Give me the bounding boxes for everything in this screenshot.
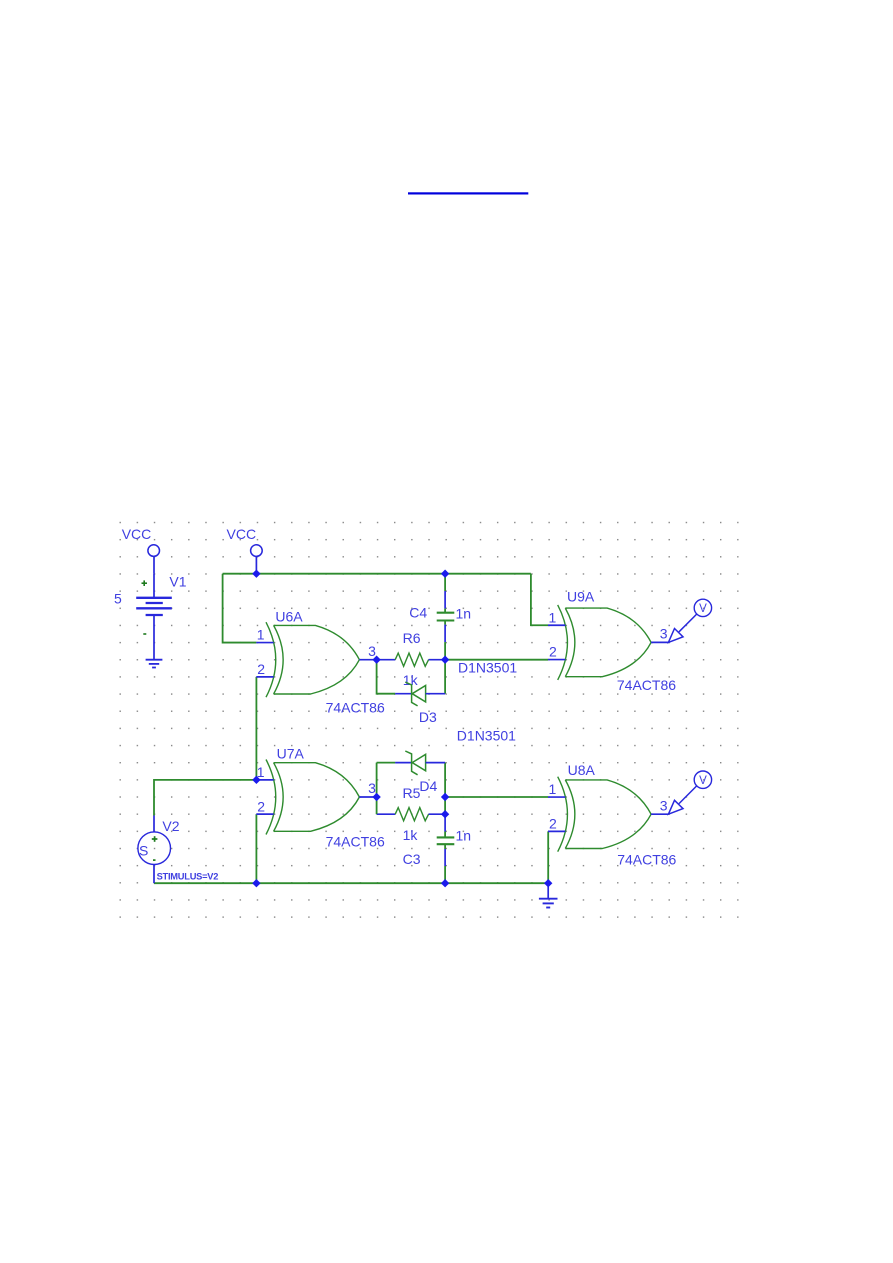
U9A pin 2 stub <box>548 659 565 661</box>
U7A pin 3 (output) stub <box>359 796 376 798</box>
wire D3 loop left <box>377 660 396 694</box>
svg-text:3: 3 <box>368 643 376 659</box>
svg-text:U8A: U8A <box>568 762 596 778</box>
ground (under V1) <box>146 660 163 668</box>
junction U7A pin1 <box>252 776 260 784</box>
svg-text:1n: 1n <box>456 828 472 844</box>
U7A pin 1 stub <box>256 779 273 781</box>
voltage probe P2 <box>668 771 711 814</box>
U9A pin 3 (output) stub <box>651 641 668 643</box>
U6A pin 1 stub <box>256 642 273 644</box>
svg-text:2: 2 <box>549 644 557 660</box>
svg-text:C3: C3 <box>403 851 421 867</box>
svg-text:R6: R6 <box>403 630 421 646</box>
svg-text:1: 1 <box>257 627 265 643</box>
svg-text:3: 3 <box>660 626 668 642</box>
voltage source V1 (battery, 5V) <box>114 573 187 659</box>
svg-text:VCC: VCC <box>227 526 257 542</box>
svg-text:1k: 1k <box>403 672 419 688</box>
svg-text:3: 3 <box>660 797 668 813</box>
svg-text:74ACT86: 74ACT86 <box>617 851 676 867</box>
svg-text:3: 3 <box>368 780 376 796</box>
wire D4 loop left (U7A output vertical) <box>376 763 378 815</box>
V2 plus mark <box>152 838 158 840</box>
svg-text:D1N3501: D1N3501 <box>457 728 516 744</box>
capacitor C3 (1n) <box>403 814 471 883</box>
wire D4 loop right <box>444 763 446 815</box>
svg-text:1n: 1n <box>456 605 472 621</box>
XOR gate U9A (74ACT86) <box>548 589 676 693</box>
svg-text:U6A: U6A <box>275 609 303 625</box>
wire D3 loop right <box>444 660 446 694</box>
junction U6A output <box>372 656 380 664</box>
junction U7A output <box>372 793 380 801</box>
resistor R5 (1k) <box>377 785 446 843</box>
junction R5/C3 node <box>441 810 449 818</box>
U7A pin 2 stub <box>256 813 273 815</box>
U9A pin 1 stub <box>548 624 565 626</box>
svg-text:74ACT86: 74ACT86 <box>617 677 676 693</box>
U8A pin 3 (output) stub <box>651 813 668 815</box>
power symbol VCC (right) <box>227 526 263 574</box>
diode D3 (D1N3501 zener) <box>395 659 517 725</box>
junction C3/rail <box>441 879 449 887</box>
svg-text:74ACT86: 74ACT86 <box>326 699 385 715</box>
wire bottom rail <box>154 882 548 884</box>
svg-text:D4: D4 <box>419 778 437 794</box>
V1 plus mark <box>142 582 148 584</box>
junction U7A pin2/rail <box>252 879 260 887</box>
svg-text:1k: 1k <box>403 827 419 843</box>
wire U6A pin2 drop to U7A pin 1 <box>255 677 257 780</box>
voltage probe P1 <box>668 599 711 642</box>
V1 minus mark <box>143 633 146 635</box>
svg-text:C4: C4 <box>409 605 427 621</box>
U6A pin 2 stub <box>256 676 273 678</box>
power symbol VCC (left) <box>122 526 160 574</box>
junction C4 top <box>441 570 449 578</box>
svg-text:S: S <box>139 842 148 858</box>
junction R6/C4/D3 node <box>441 656 449 664</box>
V2 minus mark <box>153 859 156 861</box>
svg-text:V: V <box>699 603 707 615</box>
svg-text:V: V <box>699 775 707 787</box>
voltage source V2 (stimulus) <box>138 816 218 884</box>
svg-text:R5: R5 <box>403 785 421 801</box>
title underline <box>408 192 528 194</box>
svg-text:1: 1 <box>549 781 557 797</box>
U6A pin 3 (output) stub <box>359 659 376 661</box>
wire U7A pin1 to V2 <box>154 780 256 816</box>
junction D4/U8A pin1 node <box>441 793 449 801</box>
wire top rail <box>223 573 531 575</box>
junction ground/rail <box>544 879 552 887</box>
wire D4 junction to U8A pin 1 <box>445 796 548 798</box>
resistor R6 (1k) <box>377 630 446 688</box>
capacitor C4 (1n) <box>409 574 471 660</box>
XOR gate U8A (74ACT86) <box>548 762 677 868</box>
svg-text:2: 2 <box>257 661 265 677</box>
XOR gate U6A (74ACT86) <box>256 609 385 716</box>
svg-text:74ACT86: 74ACT86 <box>326 833 385 849</box>
svg-text:D3: D3 <box>419 709 437 725</box>
svg-text:2: 2 <box>549 815 557 831</box>
svg-text:U7A: U7A <box>277 746 305 762</box>
svg-text:V2: V2 <box>162 818 179 834</box>
wire U8A pin2 drop <box>547 831 549 883</box>
svg-text:D1N3501: D1N3501 <box>458 659 517 675</box>
svg-text:1: 1 <box>549 609 557 625</box>
svg-text:5: 5 <box>114 591 122 607</box>
wire right drop to U9A pin 1 <box>531 574 548 626</box>
U8A pin 2 stub <box>548 830 565 832</box>
wire U6A output row to U9A pin 2 <box>445 659 548 661</box>
junction VCC2/top-rail <box>252 570 260 578</box>
svg-text:U9A: U9A <box>567 589 595 605</box>
XOR gate U7A (74ACT86) <box>256 746 385 850</box>
U8A pin 1 stub <box>548 796 565 798</box>
svg-text:VCC: VCC <box>122 526 152 542</box>
svg-text:STIMULUS=V2: STIMULUS=V2 <box>157 871 219 881</box>
wire left drop to U6A pin 1 <box>223 574 257 643</box>
svg-text:V1: V1 <box>169 573 186 589</box>
wire U7A pin2 drop to bottom rail <box>255 814 257 883</box>
ground (bottom right) <box>539 883 558 907</box>
svg-text:2: 2 <box>257 798 265 814</box>
diode D4 (D1N3501 zener) <box>395 728 516 794</box>
